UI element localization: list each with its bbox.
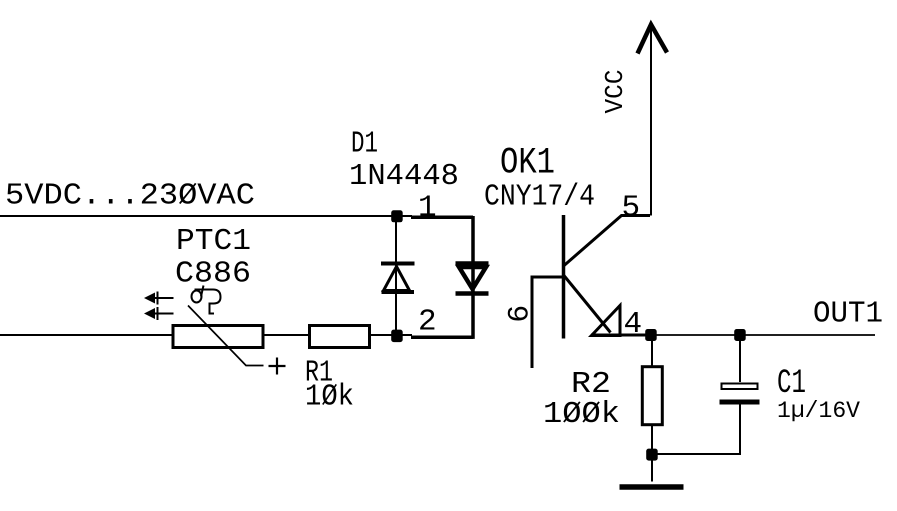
- svg-text:5VDC...23ØVAC: 5VDC...23ØVAC: [5, 179, 255, 214]
- svg-text:1µ/16V: 1µ/16V: [777, 398, 860, 424]
- svg-text:1ØØk: 1ØØk: [543, 397, 620, 432]
- svg-text:2: 2: [418, 305, 437, 340]
- svg-text:OUT1: OUT1: [813, 297, 883, 332]
- svg-text:VCC: VCC: [600, 70, 630, 114]
- svg-text:6: 6: [504, 305, 538, 323]
- svg-text:PTC1: PTC1: [176, 224, 251, 259]
- svg-text:OK1: OK1: [500, 143, 555, 185]
- svg-text:C886: C886: [175, 257, 251, 292]
- svg-text:CNY17/4: CNY17/4: [484, 180, 595, 215]
- svg-text:D1: D1: [351, 127, 378, 162]
- svg-text:1: 1: [418, 191, 437, 226]
- svg-text:4: 4: [624, 307, 643, 342]
- svg-text:5: 5: [622, 191, 641, 226]
- svg-text:1N4448: 1N4448: [349, 159, 459, 194]
- svg-text:1Øk: 1Øk: [305, 380, 354, 415]
